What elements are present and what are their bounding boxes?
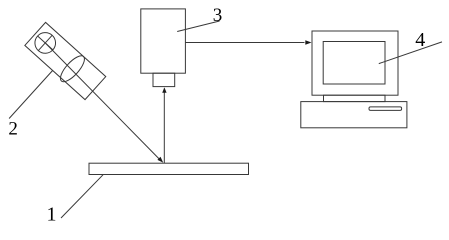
svg-text:4: 4 xyxy=(415,29,425,51)
svg-text:3: 3 xyxy=(213,5,223,26)
svg-text:1: 1 xyxy=(47,204,57,226)
svg-text:2: 2 xyxy=(8,119,18,140)
